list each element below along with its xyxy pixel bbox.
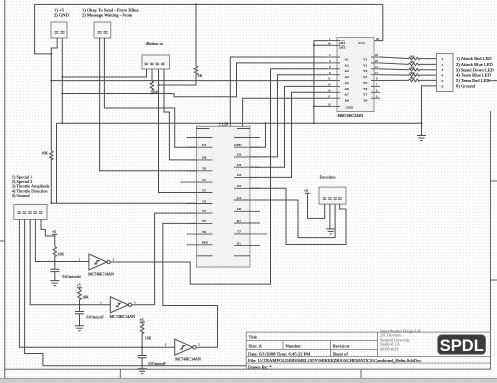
svg-text:16: 16 (375, 59, 379, 63)
junction R11 / U3A input (141, 346, 143, 348)
U1 pin U2 (234, 187, 260, 189)
junction top rail / 5K (195, 3, 197, 5)
svg-text:SPDL: SPDL (440, 337, 484, 355)
svg-text:U3: U3 (237, 173, 242, 177)
svg-text:T7: T7 (237, 230, 241, 234)
svg-text:+5: +5 (52, 230, 56, 234)
svg-text:U6: U6 (202, 156, 207, 160)
U2 pin 16 Y2 (371, 62, 380, 64)
svg-text:5) Team Red LED: 5) Team Red LED (456, 78, 490, 83)
U1 pin T4 (187, 212, 213, 214)
connector P3 iButton box (142, 55, 170, 69)
U2 GND pin 10 (327, 105, 340, 107)
wire +5 to R9 (54, 234, 56, 246)
connector P1 (+5/GND) box (51, 22, 67, 38)
svg-text:T4: T4 (202, 209, 206, 213)
wire port stub right edge (488, 80, 497, 82)
wire U3B output to U1 T4 (132, 213, 197, 305)
svg-text:2: 2 (113, 258, 115, 262)
svg-text:Encoders: Encoders (320, 174, 336, 179)
svg-text:A1: A1 (345, 57, 350, 61)
wire U1 top pin A to 244 A1 (230, 57, 327, 126)
resistor R11 10K (140, 324, 143, 334)
svg-text:10K: 10K (42, 152, 49, 156)
wire +5 vertical rail x=51.3 (50, 54, 52, 151)
wire U1 GND to GND rail (250, 123, 266, 147)
svg-text:1: 1 (165, 343, 167, 347)
svg-text:MC74HC14AN: MC74HC14AN (175, 357, 201, 362)
svg-text:Y6: Y6 (363, 87, 368, 91)
wire P2 pin2 to U1 U7 (104, 38, 196, 147)
junction OE2 (313, 44, 315, 46)
wire P3 pin3 down to U1 T2 (159, 69, 197, 193)
U1 pin stub top-right (234, 137, 260, 139)
svg-text:iButton in: iButton in (146, 41, 164, 46)
U2 pin 4 A2 (327, 62, 340, 64)
svg-text:2) Message Waiting - From: 2) Message Waiting - From (82, 13, 133, 18)
svg-text:5) Ground: 5) Ground (12, 193, 31, 198)
svg-text:U7: U7 (202, 143, 207, 147)
U2 pin 3 Y8 (371, 97, 380, 99)
svg-text:11: 11 (328, 77, 331, 81)
wire P3 pin4 to U1 U6 (164, 69, 197, 160)
wire P6 pin2 to bottom rail (25, 220, 43, 366)
connector P4 LED box (437, 54, 454, 92)
svg-text:MM74HC244N: MM74HC244N (338, 113, 364, 118)
svg-text:1: 1 (100, 300, 102, 304)
ground symbol gate3 (138, 369, 147, 374)
svg-text:OE2: OE2 (339, 46, 346, 50)
wire P1 pin1 jog to +5 vertical (51, 38, 57, 54)
sheet frame right zone ticks (491, 180, 497, 182)
svg-text:MC74HC14AN: MC74HC14AN (110, 314, 136, 319)
sheet frame right border (490, 111, 492, 369)
U2 pin 6 A3 (327, 68, 340, 70)
wire VCC drop to U2 pin 20 (374, 4, 383, 40)
wire U1 top pin B to 244 A8 (243, 98, 327, 126)
junction R2 / A2 wire (151, 93, 153, 95)
svg-text:T0: T0 (202, 167, 206, 171)
svg-text:14: 14 (375, 65, 379, 69)
wire R9 to U3C input (54, 257, 56, 262)
wire bottom rail (43, 365, 246, 367)
svg-text:A3: A3 (345, 69, 350, 73)
U1 pin U0 (234, 210, 260, 212)
svg-text:300: 300 (410, 76, 415, 80)
resistor R9 10K (53, 247, 56, 257)
svg-text:Y1: Y1 (363, 57, 368, 61)
U1 pin stub bottom-right (234, 255, 250, 257)
wire U1 U1pin to encoder pin3 (250, 200, 335, 238)
U1 pin T1 (180, 181, 212, 183)
U2 pin 7 Y6 (371, 85, 380, 87)
svg-text:A6: A6 (345, 87, 350, 91)
svg-text:15: 15 (328, 89, 332, 93)
sheet frame bottom zone ticks (119, 369, 121, 378)
svg-text:Y5: Y5 (363, 81, 368, 85)
svg-text:100: 100 (153, 91, 159, 95)
U2 pin 12 Y4 (371, 74, 380, 76)
wire R11 to U3A input (141, 334, 143, 348)
svg-text:A5: A5 (345, 81, 350, 85)
wire T3 long rail (51, 202, 196, 204)
svg-text:5: 5 (442, 79, 444, 83)
svg-text:T1: T1 (202, 178, 206, 182)
title block frame (246, 332, 490, 369)
wire +5 to R10 (79, 288, 81, 290)
wire P3 pin1 to GND vertical (62, 69, 146, 77)
svg-text:201 Thornton: 201 Thornton (380, 334, 401, 338)
junction GND pin10 (313, 105, 315, 107)
svg-text:A4: A4 (345, 75, 350, 79)
svg-text:13: 13 (328, 83, 332, 87)
svg-text:0.01microF: 0.01microF (149, 362, 166, 366)
svg-text:0.01microfd: 0.01microfd (63, 275, 81, 279)
svg-text:6: 6 (442, 84, 444, 88)
wire P3 pin2 to R2 (151, 69, 153, 81)
connector P6 throttle box (14, 205, 47, 220)
capacitor C3 (138, 347, 147, 366)
wire P6 pin5 jog to +5 (41, 220, 55, 237)
inverter U3A gate3 (175, 339, 193, 355)
resistor R10 10K (78, 290, 81, 300)
resistor R4 300 (409, 57, 437, 60)
U2 pin 15 A7 (327, 91, 340, 93)
svg-text:2) Attack Blue LED: 2) Attack Blue LED (456, 62, 494, 67)
wire P5 pin2 to ground (329, 204, 331, 229)
junction T3 rail / +5 vertical (50, 202, 52, 204)
wire P4 pin6 to ground (422, 86, 437, 123)
U2 pin 5 Y7 (371, 91, 380, 93)
U1 pin U3 (234, 176, 260, 178)
wire P6 pin1 to gate U3A input (19, 220, 174, 348)
SPDL logo (438, 335, 486, 355)
junction U1 GND / GND rail (265, 122, 267, 124)
U1 pin U6 (187, 159, 213, 161)
wire U1 U5 to 244 A4 (250, 75, 327, 157)
svg-text:+5: +5 (77, 284, 81, 288)
wire U3A output to U1 T5 (163, 223, 218, 347)
svg-text:94305-4021: 94305-4021 (380, 348, 398, 352)
svg-text:2: 2 (442, 63, 444, 67)
wire P2 pin1 to U1 T0 (100, 38, 197, 171)
svg-text:20: 20 (376, 37, 380, 41)
wire U1 U4 to 244 A6 (250, 86, 327, 167)
resistor R1 10K on +5 vertical (50, 151, 53, 159)
svg-text:4: 4 (442, 74, 444, 78)
capacitor C1 (50, 262, 59, 281)
svg-text:300: 300 (410, 71, 415, 75)
svg-text:Drawn By: *: Drawn By: * (248, 364, 272, 369)
U1 pin PE0 (187, 244, 213, 246)
U1 pin U5 (234, 156, 260, 158)
wire +5 to P5 pin1 (308, 193, 325, 218)
U1 pin GND (234, 146, 260, 148)
junction R10 / U3B input (79, 304, 81, 306)
svg-text:Date: 6/1/2008 Time: 6: Date: 6/1/2008 Time: 6:45:22 PM (248, 351, 310, 356)
ground symbol gate2 (75, 326, 84, 331)
svg-text:2: 2 (134, 300, 136, 304)
U1 pin T6 (187, 233, 213, 235)
svg-text:2) GND: 2) GND (54, 13, 70, 18)
resistor R7 300 (409, 74, 437, 77)
ground symbol gate1 (50, 281, 59, 286)
svg-text:1) Attack Red LED: 1) Attack Red LED (456, 56, 492, 61)
wire R2 to A2 wire (151, 90, 153, 94)
wire U1 U2 to encoder pin4 (250, 188, 346, 244)
U1 top inner pin stubs (197, 128, 251, 130)
U1 pin U4 (234, 166, 260, 168)
wire U1 U3 to 244 A7 (250, 92, 327, 177)
svg-text:1: 1 (442, 57, 444, 61)
junction OE tie / GND rail (313, 122, 315, 124)
resistor R6 300 (409, 68, 437, 71)
wire P1 pin2 GND vertical (61, 38, 63, 123)
U1 pin T2 (187, 192, 213, 194)
wire +5 vertical below R1 to T3 rail (50, 159, 52, 203)
U1 pin U1 (234, 199, 260, 201)
svg-text:300: 300 (410, 66, 415, 70)
svg-text:PE0: PE0 (202, 241, 208, 245)
buffer U2 74HC244 box (337, 38, 374, 112)
U1 pin E7 (234, 222, 260, 224)
svg-text:0.01microF: 0.01microF (87, 315, 104, 319)
wire A5 long rail to U2 pin A5 (51, 80, 327, 82)
node VCC top rail wire (35, 3, 383, 5)
resistor R3 5K (194, 66, 197, 74)
junction +5 vertical (50, 53, 52, 55)
svg-text:U5: U5 (237, 153, 242, 157)
sheet frame inner bottom border (5, 368, 491, 370)
U2 pin 11 A5 (327, 80, 340, 82)
svg-text:T3: T3 (202, 199, 206, 203)
svg-text:E1: E1 (237, 241, 241, 245)
svg-text:300: 300 (410, 60, 415, 64)
svg-text:300: 300 (410, 54, 415, 58)
svg-text:+5: +5 (304, 189, 308, 193)
junction GND rail left end (61, 122, 63, 124)
wire P6 pin4 to gate U3C input (35, 220, 89, 262)
svg-text:6) Ground: 6) Ground (456, 84, 476, 89)
svg-text:Size: A: Size: A (249, 343, 263, 348)
svg-text:2: 2 (198, 343, 200, 347)
svg-text:3: 3 (442, 68, 444, 72)
svg-text:10K: 10K (145, 337, 152, 341)
inverter U3C gate1 (89, 254, 107, 270)
U2 pin 14 Y3 (371, 68, 380, 70)
svg-text:Sheet of: Sheet of (333, 351, 349, 356)
U2 pin 9 Y5 (371, 80, 380, 82)
svg-text:19: 19 (328, 42, 332, 46)
svg-text:Y3: Y3 (363, 69, 368, 73)
wire R10 to U3B input (79, 300, 81, 305)
U1 pin T5 (187, 222, 213, 224)
svg-text:12: 12 (375, 71, 379, 75)
wire R3 bottom to P3 pin3 (159, 75, 197, 86)
wire A2 step route to U2 pin A2 (62, 63, 327, 97)
svg-text:3) Stand Down LED: 3) Stand Down LED (456, 67, 495, 72)
svg-text:Y4: Y4 (363, 75, 368, 79)
svg-text:T5: T5 (202, 219, 206, 223)
svg-text:VCC: VCC (358, 41, 366, 45)
svg-text:GND: GND (346, 105, 354, 109)
wire U3C output to U1 T7 area (110, 69, 327, 284)
svg-text:T6: T6 (202, 230, 206, 234)
wire Y1 to R4 (380, 57, 409, 59)
svg-text:4) Team Blue LED: 4) Team Blue LED (456, 73, 492, 78)
resistor R2 100 (150, 81, 153, 90)
svg-text:10K: 10K (58, 253, 65, 257)
junction GND / iButton pin1 (61, 76, 63, 78)
sheet frame left zone tick (0, 240, 5, 242)
svg-text:Y8: Y8 (363, 99, 368, 103)
wire U2 OE1/OE2/GND tie vertical (314, 41, 327, 124)
connector P2 (XBee) box (94, 22, 111, 38)
wire GND rail left stub down (56, 123, 58, 203)
svg-text:Y7: Y7 (363, 93, 368, 97)
U1 pin T3 (187, 203, 213, 205)
wire P6 pin3 to gate U3B input (30, 220, 110, 305)
svg-text:+5: +5 (140, 318, 144, 322)
svg-text:E7: E7 (237, 219, 241, 223)
svg-text:A8: A8 (345, 99, 350, 103)
sheet frame left border (4, 0, 6, 378)
sheet outer bottom edge (0, 377, 497, 379)
U1 pin T7 (234, 233, 267, 235)
junction P3 pin3 / 5K (158, 84, 160, 86)
wire Y2 to R5 (380, 63, 409, 65)
svg-text:18: 18 (375, 53, 379, 57)
inverter U3B gate2 (110, 297, 128, 313)
svg-text:GND: GND (234, 143, 242, 147)
U1 pin T0 (187, 170, 213, 172)
microcontroller U1 box (197, 126, 251, 267)
svg-text:Number:: Number: (286, 343, 302, 348)
U2 pin 2 A1 (327, 56, 340, 58)
junction GND / A2 wire (61, 93, 63, 95)
resistor R5 300 (409, 63, 437, 66)
svg-text:File: U:\TEAMFOLDERS\MELODY: File: U:\TEAMFOLDERS\MELODY\MIKEEZRA\SCH… (248, 358, 421, 363)
junction P4 ground / GND rail (421, 122, 423, 124)
U2 pin 18 Y1 (371, 56, 380, 58)
svg-text:5K: 5K (198, 74, 203, 78)
U1 pin E1 (234, 245, 260, 247)
resistor R8 300 (409, 79, 437, 82)
svg-text:U0: U0 (237, 207, 242, 211)
junction R9 / U3C input (54, 261, 56, 263)
wire GND horizontal rail (57, 122, 422, 124)
junction +5 rail / A5 wire (50, 80, 52, 82)
ground symbol right (417, 123, 426, 140)
svg-text:10: 10 (328, 103, 332, 107)
U2 pin 13 A6 (327, 85, 340, 87)
U2 pin 17 A8 (327, 97, 340, 99)
U1 pin stub top-left (187, 137, 213, 139)
ground symbol encoder (326, 229, 335, 234)
svg-text:Revision:: Revision: (333, 343, 351, 348)
svg-text:A7: A7 (345, 93, 350, 97)
wire +5 to R11 (141, 322, 143, 323)
title block address (380, 329, 421, 351)
svg-text:T2: T2 (202, 188, 206, 192)
svg-text:OE1: OE1 (339, 41, 346, 45)
svg-text:A2: A2 (345, 63, 350, 67)
connector P5 encoders box (319, 187, 346, 204)
svg-text:U1: U1 (237, 196, 242, 200)
U2 pin 19 OE2 (327, 44, 340, 46)
wire Y4 to R7 (380, 74, 409, 76)
svg-text:Y2: Y2 (363, 63, 368, 67)
svg-text:U2: U2 (237, 184, 242, 188)
U2 pin 1 OE1 (327, 40, 340, 42)
svg-text:10K: 10K (82, 296, 89, 300)
U2 pin 8 A4 (327, 74, 340, 76)
wire 5K drop from top rail (195, 4, 197, 66)
svg-text:MC74HC14AN: MC74HC14AN (88, 272, 114, 277)
svg-text:1: 1 (78, 258, 80, 262)
wire top rail left drop to +5/GND connector (35, 4, 52, 54)
capacitor C2 (75, 305, 84, 326)
wire Y3 to R6 (380, 68, 409, 71)
svg-text:Title: Title (249, 335, 258, 340)
svg-text:17: 17 (328, 94, 332, 98)
svg-text:U4: U4 (237, 163, 242, 167)
wire Y5 to R8 (380, 79, 409, 81)
U1 pin U7 (187, 146, 213, 148)
U1 pin stub bottom-left (197, 255, 213, 257)
